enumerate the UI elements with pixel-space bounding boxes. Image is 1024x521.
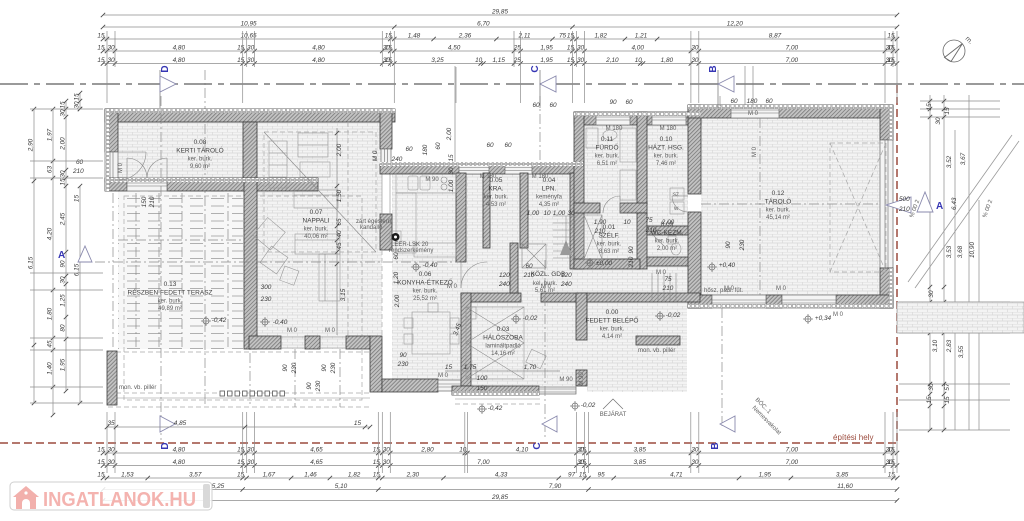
svg-text:4,33: 4,33	[495, 472, 508, 479]
svg-text:60: 60	[730, 98, 738, 105]
svg-text:15: 15	[97, 45, 105, 52]
kra right wall	[483, 173, 490, 248]
svg-text:-0,40: -0,40	[423, 262, 438, 269]
svg-text:15: 15	[926, 103, 933, 111]
svg-text:3,85: 3,85	[633, 459, 646, 466]
svg-text:15: 15	[60, 178, 67, 186]
svg-text:2,10: 2,10	[605, 57, 619, 64]
svg-text:49,89 m²: 49,89 m²	[158, 306, 182, 312]
stairs	[553, 215, 576, 217]
svg-text:2,90: 2,90	[28, 138, 35, 152]
bedside + chair	[526, 349, 546, 368]
svg-text:10,95: 10,95	[241, 21, 257, 28]
svg-text:2,00: 2,00	[446, 127, 453, 141]
bathroom block left wall	[574, 112, 584, 269]
svg-text:15: 15	[888, 472, 896, 479]
middle block top wall	[380, 164, 583, 174]
svg-text:6,15: 6,15	[28, 256, 35, 269]
svg-text:NAPPALI: NAPPALI	[303, 218, 330, 225]
svg-text:M 0: M 0	[541, 284, 552, 290]
svg-text:60: 60	[625, 99, 633, 106]
chimney	[390, 231, 401, 243]
svg-text:60: 60	[525, 263, 533, 270]
svg-text:M 90: M 90	[579, 372, 585, 386]
kerti tarolo bottom wall b	[167, 178, 318, 191]
furdo bottom b	[620, 203, 647, 213]
szelf closet X	[584, 215, 602, 259]
svg-text:1,90: 1,90	[594, 219, 607, 226]
svg-text:30: 30	[383, 459, 391, 466]
svg-text:8,87: 8,87	[769, 33, 782, 40]
svg-text:230: 230	[260, 296, 272, 303]
svg-text:4,10: 4,10	[516, 447, 529, 454]
svg-text:8,63 m²: 8,63 m²	[599, 249, 619, 255]
svg-text:35: 35	[107, 420, 115, 427]
svg-text:210: 210	[594, 228, 606, 235]
svg-text:mon. vb. pillér: mon. vb. pillér	[638, 348, 675, 354]
svg-text:C: C	[532, 442, 543, 449]
svg-text:2,80: 2,80	[420, 447, 434, 454]
svg-text:+0,40: +0,40	[719, 262, 736, 269]
svg-text:3,85: 3,85	[836, 472, 849, 479]
svg-text:75: 75	[645, 217, 653, 224]
svg-text:+0,34: +0,34	[815, 315, 832, 322]
svg-text:keményfa: keményfa	[536, 195, 563, 201]
mon vb pillar left	[107, 351, 117, 405]
svg-text:3,85: 3,85	[633, 447, 646, 454]
svg-text:80: 80	[60, 324, 67, 332]
svg-text:90: 90	[282, 364, 289, 372]
bedroom bottom wall	[452, 386, 539, 395]
svg-text:1,80: 1,80	[47, 307, 54, 320]
door M0 left wall	[105, 152, 118, 182]
svg-text:M 0: M 0	[447, 284, 458, 290]
left horizontal extension lines	[30, 109, 103, 403]
svg-text:RÉSZBEN FEDETT TERASZ: RÉSZBEN FEDETT TERASZ	[128, 288, 213, 297]
svg-text:3,52: 3,52	[946, 155, 953, 168]
svg-text:15: 15	[373, 459, 381, 466]
svg-text:11,60: 11,60	[837, 483, 853, 490]
svg-text:0.07: 0.07	[310, 209, 323, 216]
szelf/wc divider	[637, 213, 647, 269]
svg-text:FÜRDŐ: FÜRDŐ	[595, 143, 618, 152]
svg-text:0.12: 0.12	[772, 190, 785, 197]
svg-text:7,00: 7,00	[786, 447, 799, 454]
section marker B top	[717, 70, 719, 108]
svg-text:FEDETT BELÉPŐ: FEDETT BELÉPŐ	[586, 316, 639, 325]
svg-text:2,11: 2,11	[518, 33, 531, 40]
svg-text:30: 30	[935, 117, 942, 125]
svg-text:1,21: 1,21	[635, 33, 648, 40]
svg-text:15: 15	[887, 447, 895, 454]
svg-text:2,00: 2,00	[60, 137, 67, 151]
svg-text:B: B	[710, 442, 721, 449]
svg-text:1,95: 1,95	[540, 45, 553, 52]
nappali dashed gallery outline	[264, 132, 376, 252]
svg-text:ker. burk.: ker. burk.	[595, 154, 620, 160]
svg-text:15: 15	[60, 101, 67, 109]
extension lines top	[107, 31, 897, 103]
svg-text:30: 30	[60, 170, 67, 178]
garage right wall bottom	[880, 268, 893, 308]
outer wall top-left block	[105, 109, 395, 122]
svg-text:15: 15	[373, 472, 381, 479]
svg-text:1,48: 1,48	[408, 33, 421, 40]
svg-text:KERTI TÁROLÓ: KERTI TÁROLÓ	[176, 146, 223, 155]
window M180 furdo	[596, 112, 630, 125]
svg-text:15: 15	[385, 57, 393, 64]
garage dashed X	[830, 143, 886, 272]
svg-text:300: 300	[261, 284, 272, 291]
svg-text:1,25: 1,25	[60, 294, 67, 307]
svg-text:30: 30	[567, 210, 575, 217]
svg-text:4,14 m²: 4,14 m²	[602, 334, 622, 340]
sofa L	[269, 141, 287, 188]
svg-text:4,53 m²: 4,53 m²	[486, 202, 506, 208]
svg-text:30: 30	[247, 57, 255, 64]
svg-text:ker. burk.: ker. burk.	[484, 195, 509, 201]
svg-text:0.06: 0.06	[419, 271, 432, 278]
svg-text:D: D	[160, 65, 171, 72]
svg-text:12,20: 12,20	[727, 21, 743, 28]
svg-text:60: 60	[435, 142, 442, 150]
stair void X box	[522, 244, 546, 268]
sectional sofa	[295, 234, 340, 254]
svg-text:M 0: M 0	[833, 312, 844, 318]
svg-text:M 180: M 180	[532, 174, 549, 180]
svg-text:65: 65	[336, 218, 343, 226]
svg-text:90: 90	[628, 246, 635, 254]
svg-text:kandalló: kandalló	[360, 225, 383, 231]
svg-text:0.13: 0.13	[164, 281, 177, 288]
nappali bottom seg1	[249, 336, 281, 349]
svg-text:90: 90	[609, 99, 617, 106]
svg-text:60: 60	[549, 102, 557, 109]
svg-text:15: 15	[97, 472, 105, 479]
svg-text:mon. vb. pillér: mon. vb. pillér	[119, 385, 156, 391]
mon vb pillar entrance	[636, 336, 680, 345]
svg-text:sz: sz	[673, 192, 679, 198]
garage bottom a	[688, 295, 712, 308]
svg-text:ker. burk.: ker. burk.	[654, 154, 679, 160]
svg-text:3,68: 3,68	[957, 245, 964, 258]
svg-text:15: 15	[354, 420, 362, 427]
svg-text:29,85: 29,85	[491, 9, 508, 16]
door arc left wall	[118, 151, 146, 153]
svg-text:1,82: 1,82	[594, 33, 607, 40]
svg-text:15: 15	[445, 364, 453, 371]
svg-text:15: 15	[373, 447, 381, 454]
bottom dimension rows	[103, 452, 897, 454]
svg-text:30: 30	[60, 276, 67, 284]
svg-text:3,55: 3,55	[958, 345, 965, 358]
svg-text:10,90: 10,90	[969, 242, 976, 258]
svg-text:97: 97	[568, 472, 576, 479]
svg-text:230: 230	[315, 380, 322, 392]
svg-text:30: 30	[928, 383, 935, 391]
svg-text:7,00: 7,00	[786, 45, 799, 52]
svg-text:M 90: M 90	[559, 377, 573, 383]
svg-text:30: 30	[691, 459, 699, 466]
svg-text:30: 30	[577, 57, 585, 64]
svg-text:1,82: 1,82	[348, 472, 361, 479]
dining table	[412, 312, 450, 354]
divider storage/nappali	[243, 122, 257, 178]
svg-text:29,85: 29,85	[491, 494, 508, 501]
svg-text:15: 15	[887, 459, 895, 466]
svg-text:30: 30	[691, 57, 699, 64]
lpn left wall	[520, 173, 528, 248]
small door arcs	[619, 196, 621, 213]
svg-text:100: 100	[477, 375, 488, 382]
svg-text:15: 15	[887, 57, 895, 64]
svg-text:0.00: 0.00	[606, 309, 619, 316]
svg-text:A: A	[58, 250, 65, 261]
svg-text:230: 230	[739, 239, 746, 251]
red building plot dashed line right	[896, 85, 898, 443]
svg-text:ker. burk.: ker. burk.	[188, 157, 213, 163]
svg-text:2,00: 2,00	[394, 294, 401, 308]
svg-text:HÁZT. HSG.: HÁZT. HSG.	[648, 143, 684, 152]
svg-text:240: 240	[560, 281, 572, 288]
svg-text:60: 60	[405, 146, 413, 153]
svg-text:40,06 m²: 40,06 m²	[304, 234, 328, 240]
terrace lower strip marks	[108, 351, 370, 353]
garage right wall top	[880, 105, 893, 140]
svg-text:-0,02: -0,02	[523, 315, 538, 322]
svg-text:15: 15	[579, 472, 587, 479]
svg-text:9,60 m²: 9,60 m²	[190, 164, 210, 170]
section marker B bottom	[720, 416, 735, 432]
bathroom block top wall	[574, 112, 701, 125]
svg-text:3,15: 3,15	[340, 288, 347, 301]
svg-text:LÉER-LSK 20: LÉER-LSK 20	[391, 241, 429, 248]
svg-text:10: 10	[623, 219, 631, 226]
svg-text:30: 30	[107, 459, 115, 466]
bejarat arrow	[603, 399, 623, 409]
svg-text:210: 210	[898, 206, 910, 213]
svg-text:15: 15	[944, 396, 951, 404]
svg-text:90: 90	[399, 352, 407, 359]
svg-text:210: 210	[662, 285, 674, 292]
svg-text:BEJÁRAT: BEJÁRAT	[600, 411, 627, 418]
garage bottom c	[836, 295, 893, 308]
garage door M0 b	[782, 295, 836, 308]
terrace small posts row	[220, 391, 225, 396]
svg-text:0.03: 0.03	[497, 326, 510, 333]
svg-text:0.08: 0.08	[194, 139, 207, 146]
svg-text:2,83: 2,83	[946, 339, 953, 353]
section marker C bottom	[542, 416, 557, 432]
svg-text:2,00: 2,00	[661, 219, 675, 226]
svg-text:4,80: 4,80	[173, 447, 186, 454]
svg-text:10: 10	[475, 57, 483, 64]
svg-text:1,95: 1,95	[540, 57, 553, 64]
svg-text:5,10: 5,10	[335, 483, 348, 490]
section marker C top	[539, 70, 541, 108]
svg-text:30: 30	[247, 45, 255, 52]
svg-text:15: 15	[97, 33, 105, 40]
svg-text:-0,02: -0,02	[581, 402, 596, 409]
svg-text:15: 15	[887, 33, 895, 40]
svg-text:4,35 m²: 4,35 m²	[539, 202, 559, 208]
red building plot dashed line bottom	[0, 442, 897, 444]
svg-text:230: 230	[330, 362, 337, 374]
svg-text:4,65: 4,65	[310, 447, 323, 454]
svg-text:15: 15	[944, 107, 951, 115]
svg-text:15: 15	[237, 45, 245, 52]
svg-text:15: 15	[237, 472, 245, 479]
svg-text:15: 15	[887, 45, 895, 52]
garage bottom b	[766, 295, 782, 308]
svg-text:6,51 m²: 6,51 m²	[597, 161, 617, 167]
double door arcs kerti tarolo	[126, 158, 128, 178]
svg-text:30: 30	[247, 459, 255, 466]
svg-text:14,16 m²: 14,16 m²	[491, 351, 515, 357]
svg-text:KONYHA-ÉTKEZŐ: KONYHA-ÉTKEZŐ	[397, 278, 453, 287]
svg-text:B: B	[708, 65, 719, 72]
svg-text:63: 63	[47, 166, 54, 174]
garage top wall	[688, 105, 893, 118]
hall west wall	[510, 243, 518, 293]
svg-text:90: 90	[725, 241, 732, 249]
island	[414, 243, 456, 257]
svg-text:C: C	[530, 65, 541, 72]
svg-text:építési hely: építési hely	[833, 433, 873, 442]
door arc kra-hall	[460, 262, 462, 288]
svg-text:30: 30	[383, 447, 391, 454]
svg-text:4,65: 4,65	[310, 459, 323, 466]
lpn right wall	[570, 173, 582, 269]
svg-text:15: 15	[926, 396, 933, 404]
hall/bedroom wall b	[541, 293, 587, 302]
window M90 kitchen	[459, 164, 489, 174]
svg-text:4,80: 4,80	[173, 459, 186, 466]
svg-text:0.10: 0.10	[660, 136, 673, 143]
section line A left	[95, 261, 460, 263]
svg-text:120: 120	[561, 272, 572, 279]
svg-text:60: 60	[486, 142, 494, 149]
svg-text:KRA.: KRA.	[488, 186, 503, 193]
svg-text:M 0: M 0	[118, 162, 124, 173]
svg-text:15: 15	[567, 33, 575, 40]
wc fixtures	[671, 243, 681, 255]
svg-text:4,80: 4,80	[173, 45, 186, 52]
svg-text:1,80: 1,80	[661, 57, 674, 64]
hsg fixtures	[670, 188, 684, 200]
svg-text:M 0: M 0	[287, 328, 298, 334]
svg-text:120: 120	[499, 272, 510, 279]
room fill: bathroom block	[584, 125, 688, 295]
kandallo stub wall	[380, 214, 392, 250]
svg-text:4,80: 4,80	[173, 57, 186, 64]
kerti tarolo bottom wall a	[105, 178, 127, 191]
svg-text:90: 90	[321, 364, 328, 372]
svg-text:15: 15	[97, 459, 105, 466]
svg-text:1,20: 1,20	[393, 271, 400, 284]
svg-text:7,00: 7,00	[477, 459, 490, 466]
svg-text:45,14 m²: 45,14 m²	[766, 215, 790, 221]
section line B	[719, 96, 721, 110]
kitchen bottom wall	[382, 379, 438, 392]
section marker D top	[159, 70, 161, 108]
garage right opening 500	[880, 140, 893, 268]
svg-text:10: 10	[543, 210, 551, 217]
section marker A left	[78, 246, 92, 262]
svg-text:30: 30	[107, 447, 115, 454]
svg-text:60: 60	[76, 159, 84, 166]
svg-text:15: 15	[579, 459, 587, 466]
svg-text:15: 15	[237, 447, 245, 454]
svg-text:210: 210	[628, 256, 635, 268]
svg-text:75: 75	[664, 276, 672, 283]
bedroom bottom window	[539, 387, 576, 394]
window garage top	[731, 105, 779, 118]
svg-text:2,00: 2,00	[336, 143, 343, 157]
svg-text:15: 15	[237, 459, 245, 466]
svg-text:95: 95	[598, 472, 606, 479]
svg-text:4,71: 4,71	[670, 472, 683, 479]
nappali right wall	[380, 109, 392, 149]
left outer wall upper	[105, 109, 118, 152]
svg-text:15: 15	[97, 447, 105, 454]
svg-text:ker. burk.: ker. burk.	[158, 299, 183, 305]
terrace deck pattern	[118, 191, 243, 349]
svg-text:7,46 m²: 7,46 m²	[656, 161, 676, 167]
bed	[466, 307, 524, 379]
svg-text:30: 30	[928, 290, 935, 298]
armchairs diamonds	[253, 218, 285, 250]
svg-text:1,00: 1,00	[448, 179, 455, 192]
svg-text:-0,42: -0,42	[488, 405, 503, 412]
svg-text:M 0: M 0	[325, 328, 336, 334]
nappali inner dim line	[336, 128, 338, 335]
svg-text:57: 57	[944, 383, 951, 391]
svg-text:210: 210	[645, 227, 657, 234]
svg-text:15: 15	[567, 57, 575, 64]
svg-text:6,70: 6,70	[477, 21, 490, 28]
svg-text:M 0: M 0	[372, 150, 379, 161]
garage door M0 a	[712, 295, 766, 308]
svg-text:2,36: 2,36	[458, 33, 472, 40]
svg-text:-0,42: -0,42	[212, 317, 227, 324]
window M180 kra	[505, 164, 532, 174]
svg-text:7,90: 7,90	[549, 483, 562, 490]
kitchen counter	[396, 173, 456, 193]
svg-text:15: 15	[237, 57, 245, 64]
svg-text:45: 45	[47, 340, 54, 348]
svg-text:15: 15	[567, 45, 575, 52]
svg-text:10: 10	[459, 447, 467, 454]
szelf bottom wall	[574, 259, 640, 269]
svg-text:-0,02: -0,02	[666, 312, 681, 319]
svg-text:30: 30	[577, 45, 585, 52]
svg-text:0.11: 0.11	[601, 136, 614, 143]
bedroom left wall	[461, 293, 471, 386]
opening M0 nappali-konyha top	[381, 149, 391, 165]
belepo top wall	[587, 293, 700, 302]
insulation strips	[105, 109, 395, 113]
svg-text:1,97: 1,97	[47, 128, 54, 141]
top dimension rows	[103, 14, 897, 16]
svg-text:LPN.: LPN.	[542, 186, 557, 193]
svg-text:210: 210	[149, 196, 156, 208]
garage left wall upper	[688, 105, 701, 194]
svg-text:30: 30	[74, 101, 81, 109]
door opening kerti	[127, 178, 167, 191]
terrace bottom dims	[107, 426, 370, 428]
furdo bottom a	[574, 203, 600, 213]
